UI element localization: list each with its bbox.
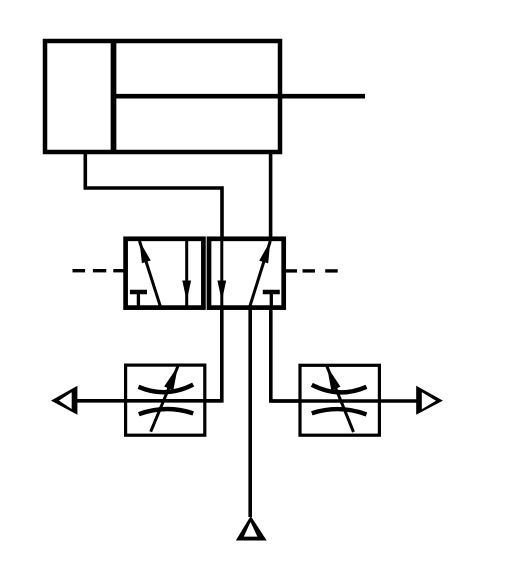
cylinder A1 piston bbox=[111, 40, 117, 154]
wire cylinder left port to valve port 4 bbox=[85, 152, 222, 240]
valve V1 left box diagonal flow arrow bbox=[140, 241, 161, 306]
valve V1 right box diagonal flow arrow bbox=[250, 241, 270, 306]
valve V1 right box blocked port T bbox=[263, 292, 280, 306]
flow control valve F2 adjustment arrow bbox=[327, 366, 354, 432]
valve V1 left box vertical flow arrow bbox=[182, 241, 191, 306]
wire cylinder right port to valve port 2 bbox=[269, 152, 273, 240]
valve V1 left position box bbox=[126, 239, 204, 308]
exhaust triangle right bbox=[416, 386, 443, 415]
valve V1 right box vertical flow arrow bbox=[217, 241, 226, 306]
cylinder A1 body bbox=[45, 41, 280, 152]
wire valve port 3 down to right flow control bbox=[271, 308, 300, 401]
valve V1 right position box bbox=[209, 239, 284, 308]
pressure source triangle bbox=[236, 516, 267, 541]
flow control valve F1 box bbox=[126, 365, 205, 435]
flow control valve F2 through line bbox=[271, 399, 419, 403]
flow control valve F1 through line bbox=[75, 399, 222, 403]
flow control valve F2 lower throttle arc bbox=[312, 409, 367, 414]
flow control valve F2 box bbox=[300, 365, 379, 435]
cylinder A1 piston rod bbox=[114, 94, 366, 99]
flow control valve F2 upper throttle arc bbox=[312, 385, 367, 393]
valve V1 left pilot dashed line bbox=[73, 269, 126, 272]
flow control valve F1 upper throttle arc bbox=[139, 385, 194, 393]
valve V1 left box blocked port T bbox=[130, 292, 147, 306]
exhaust triangle left bbox=[51, 386, 77, 415]
flow control valve F1 adjustment arrow bbox=[151, 366, 178, 431]
flow control valve F1 lower throttle arc bbox=[139, 409, 193, 414]
wire valve port 5 down to left flow control bbox=[205, 308, 222, 401]
valve V1 right pilot dashed line bbox=[284, 269, 338, 272]
wire valve port 1 supply line down bbox=[248, 308, 252, 517]
